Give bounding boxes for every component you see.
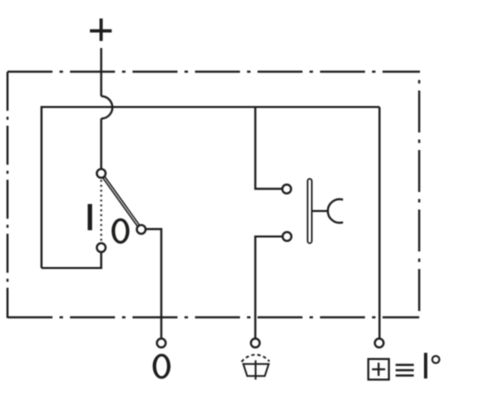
- pushbutton lower contact: [283, 232, 292, 241]
- icon triple bar: [396, 364, 414, 377]
- pushbutton upper contact: [282, 185, 291, 194]
- terminal 2 circle: [251, 339, 260, 348]
- enclosure border left: [6, 72, 8, 318]
- label 0 (terminal 1): [153, 354, 171, 379]
- wiper icon windshield trapezoid: [243, 364, 268, 376]
- icon I: [424, 353, 427, 379]
- switch lower contact: [97, 243, 106, 252]
- right branch wire: [378, 107, 380, 338]
- terminal 1 circle: [157, 339, 166, 348]
- supply wire to switch: [100, 119, 102, 169]
- icon boxed plus (terminal 3): [368, 359, 389, 380]
- middle branch lower wire: [255, 237, 282, 339]
- enclosure border right: [418, 80, 420, 317]
- icon degree circle: [432, 356, 439, 363]
- enclosure border bottom: [8, 316, 420, 318]
- switch upper contact: [97, 169, 106, 178]
- label I (switch position I): [88, 204, 92, 230]
- wire hop over bus: [101, 96, 112, 118]
- wiper icon wiper arm: [255, 360, 257, 379]
- wiper icon (terminal 2): [242, 355, 270, 380]
- top bus wire: [42, 107, 380, 268]
- wire bus to switch lower contact: [42, 252, 102, 268]
- enclosure border top: [8, 71, 421, 73]
- pushbutton actuator link: [312, 210, 328, 212]
- lever end contact: [137, 225, 146, 234]
- label 0 (switch position 0): [112, 218, 130, 243]
- battery plus terminal: [90, 19, 112, 42]
- switch lever (double line): [103, 177, 139, 226]
- supply wire from plus: [100, 48, 102, 96]
- middle branch upper wire: [255, 107, 281, 189]
- terminal 3 circle: [375, 339, 384, 348]
- wire lever to terminal 1: [146, 229, 161, 338]
- wiper icon dashed arc: [242, 355, 270, 362]
- pushbutton actuator knob arc: [328, 199, 343, 223]
- dotted line position I: [100, 180, 102, 242]
- pushbutton bridge bar: [308, 179, 312, 243]
